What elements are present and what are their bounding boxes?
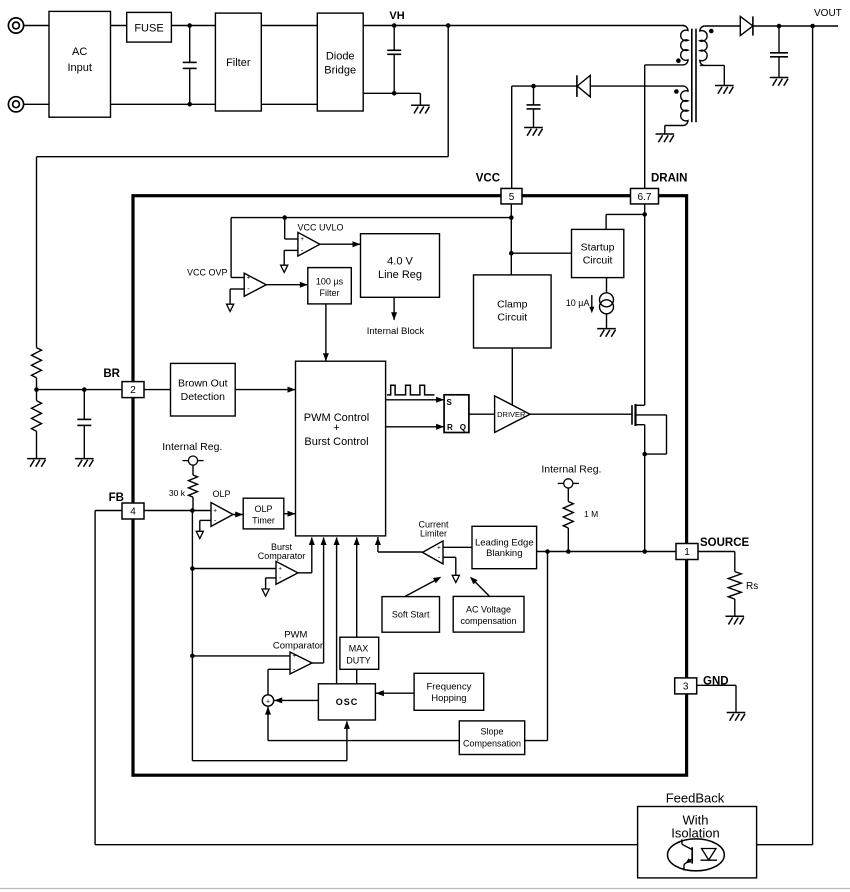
svg-text:GND: GND [703, 676, 729, 688]
svg-text:Internal Block: Internal Block [367, 326, 425, 337]
svg-text:Startup: Startup [581, 242, 615, 254]
svg-text:VH: VH [389, 10, 404, 22]
svg-text:+: + [292, 653, 296, 660]
svg-text:+: + [437, 545, 441, 552]
svg-text:2: 2 [130, 385, 136, 396]
svg-text:+: + [213, 508, 217, 515]
svg-text:Internal Reg.: Internal Reg. [162, 441, 222, 453]
svg-text:Input: Input [67, 62, 91, 74]
svg-text:Circuit: Circuit [583, 255, 613, 267]
svg-text:3: 3 [683, 682, 689, 693]
svg-text:Clamp: Clamp [497, 299, 528, 311]
svg-text:FUSE: FUSE [134, 23, 163, 35]
svg-text:Rs: Rs [746, 581, 758, 592]
svg-text:30 k: 30 k [169, 488, 186, 498]
svg-text:FeedBack: FeedBack [666, 791, 725, 806]
svg-text:1 M: 1 M [584, 509, 598, 519]
svg-text:AC: AC [72, 46, 87, 58]
svg-text:Burst Control: Burst Control [304, 436, 368, 448]
svg-text:Bridge: Bridge [324, 65, 356, 77]
svg-text:VCC UVLO: VCC UVLO [298, 223, 344, 233]
svg-text:DRIVER: DRIVER [497, 410, 526, 419]
svg-text:Hopping: Hopping [431, 693, 466, 704]
svg-text:Soft Start: Soft Start [392, 610, 430, 620]
svg-text:10 µA: 10 µA [566, 298, 590, 308]
svg-text:FB: FB [109, 492, 124, 504]
svg-text:Detection: Detection [181, 391, 226, 403]
svg-text:4.0 V: 4.0 V [387, 256, 413, 268]
svg-text:4: 4 [130, 507, 136, 518]
svg-text:+: + [300, 236, 304, 243]
svg-text:Compensation: Compensation [463, 739, 521, 749]
svg-text:1: 1 [684, 547, 690, 558]
svg-text:Limiter: Limiter [420, 529, 447, 539]
svg-text:DUTY: DUTY [346, 656, 371, 666]
svg-text:Q: Q [460, 423, 466, 432]
svg-text:R: R [447, 423, 453, 432]
svg-text:Internal Reg.: Internal Reg. [541, 464, 601, 476]
svg-text:Timer: Timer [252, 516, 275, 526]
svg-text:DRAIN: DRAIN [651, 173, 687, 185]
svg-text:+: + [333, 422, 339, 434]
svg-text:VOUT: VOUT [814, 8, 842, 19]
svg-text:MAX: MAX [349, 644, 369, 654]
svg-text:BR: BR [103, 368, 120, 380]
svg-text:VCC: VCC [476, 173, 500, 185]
svg-text:S: S [447, 398, 453, 407]
svg-text:Blanking: Blanking [486, 548, 522, 559]
svg-text:Diode: Diode [326, 51, 355, 63]
svg-text:Slope: Slope [480, 727, 503, 737]
svg-text:Comparator: Comparator [258, 551, 306, 561]
svg-text:+: + [266, 698, 270, 705]
svg-text:OSC: OSC [336, 697, 359, 707]
svg-text:6.7: 6.7 [638, 192, 652, 203]
svg-text:Frequency: Frequency [426, 682, 471, 693]
svg-text:100 µs: 100 µs [316, 277, 344, 287]
svg-text:+: + [247, 275, 251, 282]
svg-text:+: + [278, 566, 282, 573]
svg-text:OLP: OLP [213, 489, 231, 499]
svg-text:Filter: Filter [226, 57, 251, 69]
svg-text:VCC OVP: VCC OVP [187, 268, 228, 278]
svg-text:Leading Edge: Leading Edge [475, 538, 534, 549]
svg-text:SOURCE: SOURCE [700, 537, 750, 549]
svg-text:Comparator: Comparator [273, 641, 323, 652]
svg-text:Line Reg: Line Reg [378, 269, 422, 281]
svg-text:Brown Out: Brown Out [178, 378, 228, 390]
svg-text:compensation: compensation [460, 616, 516, 626]
svg-text:Circuit: Circuit [497, 312, 527, 324]
svg-text:PWM: PWM [284, 630, 307, 641]
svg-text:OLP: OLP [254, 504, 272, 514]
svg-text:Filter: Filter [320, 288, 340, 298]
svg-text:AC Voltage: AC Voltage [466, 605, 511, 615]
svg-text:5: 5 [509, 192, 515, 203]
